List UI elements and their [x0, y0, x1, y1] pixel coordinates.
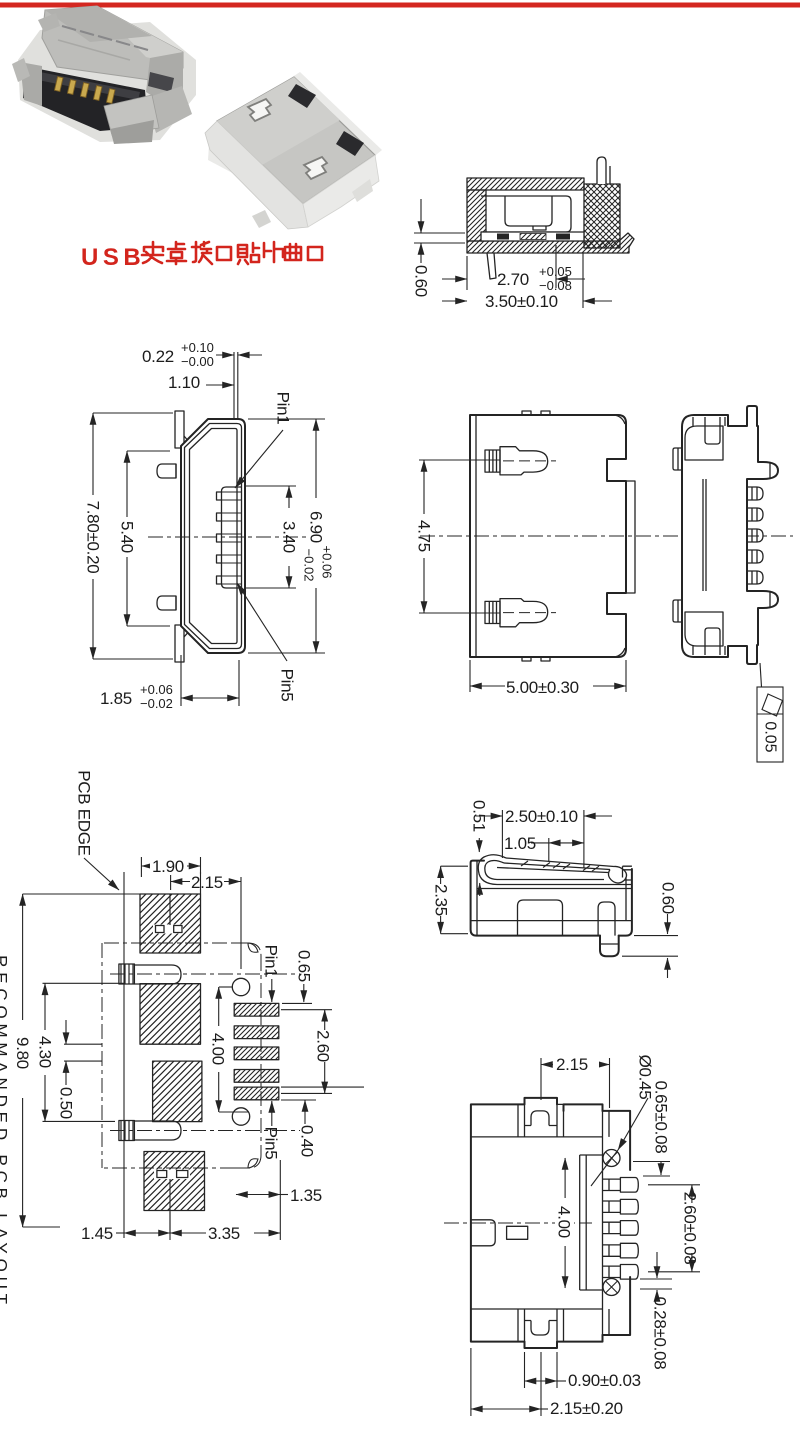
body outline [471, 861, 632, 957]
dim 2.70 +0.05/-0.08 (view A) [442, 245, 585, 293]
svg-text:Pin5: Pin5 [262, 1127, 281, 1160]
svg-text:2.60±0.08: 2.60±0.08 [681, 1192, 700, 1265]
dim 5.00±0.30 [470, 660, 626, 697]
svg-text:−0.00: −0.00 [181, 354, 214, 369]
hole circle bottom [232, 1108, 249, 1125]
svg-text:+0.05: +0.05 [539, 264, 572, 279]
svg-text:1.35: 1.35 [290, 1186, 322, 1205]
top clamp inner lines [471, 1136, 603, 1138]
view A: cross-section (top right) [412, 157, 635, 311]
PCB edge leader [84, 858, 119, 890]
dim 1.90 [141, 857, 200, 894]
view F: section with spring contact (middle right) [432, 800, 679, 978]
centerline (views C and D) [420, 535, 793, 537]
svg-text:PCB EDGE: PCB EDGE [75, 770, 94, 855]
rubber block crosshatched [584, 184, 620, 248]
arm lower line [497, 880, 632, 885]
svg-text:0.60: 0.60 [659, 882, 678, 914]
shell left wall hatched [467, 190, 486, 241]
svg-text:2.15: 2.15 [556, 1055, 588, 1074]
dim 4.00 (view G) [555, 1158, 575, 1288]
right head block lines [602, 1111, 604, 1335]
label φ0.45 leader [591, 1055, 655, 1186]
svg-text:2.60: 2.60 [314, 1030, 333, 1062]
glyph 贴 [238, 243, 259, 264]
glyph 接 [192, 242, 212, 264]
dim 2.15±0.20 (view G) [471, 1348, 623, 1418]
dim 0.90±0.03 (view G) [525, 1352, 641, 1390]
right wall step [623, 866, 632, 877]
flatness callout leader [760, 663, 762, 687]
tongue edge double lines [579, 1155, 581, 1290]
weld lug top [157, 464, 176, 478]
svg-text:6.90: 6.90 [307, 511, 326, 543]
shell inner wall [185, 424, 242, 649]
top edge small tabs [522, 411, 550, 415]
dim 3.50±0.10 (view A) [442, 252, 612, 311]
small foot lower left [487, 253, 496, 279]
latch pin top (in view C) [485, 447, 556, 475]
view C: top view (middle center) [415, 411, 794, 697]
dim 2.60±0.08 (view G) [648, 1185, 700, 1272]
dim 4.00 (pcb) [209, 987, 249, 1112]
head slot bottom [705, 628, 720, 655]
dim 0.50 [57, 1020, 103, 1119]
svg-text:0.50: 0.50 [57, 1087, 76, 1119]
svg-text:3.50±0.10: 3.50±0.10 [485, 292, 558, 311]
svg-text:RECOMMANDED PCB LAYOUT: RECOMMANDED PCB LAYOUT [0, 955, 11, 1309]
latch clip pad bottom [110, 1121, 300, 1141]
shell pin top right [597, 157, 606, 184]
dim 3.40 [245, 486, 299, 588]
label Pin5 (pcb) [262, 1101, 281, 1159]
seam lines above shell [233, 352, 235, 419]
body outline [682, 406, 778, 664]
dim 2.50±0.10 [476, 806, 612, 868]
tongue in section [505, 196, 552, 226]
svg-text:1.90: 1.90 [152, 857, 184, 876]
svg-text:2.15±0.20: 2.15±0.20 [550, 1399, 623, 1418]
svg-text:−0.08: −0.08 [539, 278, 572, 293]
dim 1.10 [168, 373, 234, 392]
solder pad 2 [140, 984, 201, 1044]
dim 0.65 (pcb) [282, 950, 314, 1003]
dim 5.40 [118, 451, 171, 626]
svg-text:0.22: 0.22 [142, 347, 174, 366]
waist inner lines [702, 479, 704, 591]
red caption: USB + CJK glyph strokes [81, 242, 322, 271]
left ear top [673, 448, 682, 470]
svg-text:4.00: 4.00 [209, 1033, 228, 1065]
bottom inner line [471, 920, 632, 922]
svg-text:−0.02: −0.02 [140, 696, 173, 711]
flatness symbol parallelogram [762, 694, 783, 716]
dim 6.90 +0.06/-0.02 [248, 419, 335, 653]
bottom flange hatched [467, 233, 634, 253]
glyph 片 [264, 242, 283, 262]
svg-text:Pin1: Pin1 [262, 945, 281, 978]
svg-text:2.70: 2.70 [497, 270, 529, 289]
svg-text:+0.10: +0.10 [181, 340, 214, 355]
dim 0.40 (pcb) [281, 1087, 364, 1157]
svg-text:7.80±0.20: 7.80±0.20 [84, 501, 103, 574]
dim 0.28±0.08 (view G) [640, 1252, 672, 1369]
main body outline [470, 415, 626, 657]
solder tab middle [518, 900, 563, 936]
view E: recommended PCB layout (bottom left) [0, 770, 364, 1309]
svg-text:4.75: 4.75 [415, 520, 434, 552]
cavity outline [481, 196, 571, 232]
glyph 曲 [285, 244, 301, 260]
tongue with 5 pins [222, 487, 242, 588]
inner left wall line [475, 415, 477, 657]
dim 1.45 [81, 1212, 170, 1243]
svg-text:4.00: 4.00 [555, 1206, 574, 1238]
arm contact blob right [608, 866, 626, 883]
svg-text:0.65: 0.65 [295, 950, 314, 982]
svg-text:0.05: 0.05 [762, 721, 779, 752]
photo: left micro-USB connector [12, 6, 196, 144]
dim 1.05 [504, 834, 584, 862]
5 pins (view G) [603, 1178, 639, 1280]
dim 1.85 +0.06/-0.02 [100, 655, 239, 711]
svg-text:+0.06: +0.06 [320, 546, 335, 579]
screw hole top [603, 1150, 620, 1167]
contact strip [481, 232, 584, 241]
latch pin inner lines [769, 462, 771, 479]
dim 0.65±0.08 (view G) [633, 1081, 671, 1176]
glyph 卓 [167, 242, 186, 264]
svg-text:+0.06: +0.06 [140, 682, 173, 697]
inner corner lines right [614, 415, 625, 424]
solder pad 3 [153, 1061, 202, 1122]
body outline [471, 1104, 603, 1341]
view B: front view (left middle) [84, 340, 335, 711]
small post right [598, 902, 615, 936]
dim 9.80 [13, 894, 140, 1227]
spring arm curl left [478, 855, 506, 885]
solder pad 1 (top) hatched [140, 894, 201, 953]
screw hole bottom [603, 1279, 620, 1296]
arm hatch ticks [521, 861, 599, 871]
dim 1.35 [236, 1186, 322, 1205]
dim 2.15 (pcb) [170, 872, 241, 925]
head inner block bottom [685, 612, 723, 646]
dim 4.30 [36, 983, 125, 1121]
footprint outline dash-dot [104, 943, 261, 1168]
cavity outline [190, 429, 238, 644]
right side panel [626, 481, 635, 593]
dim 0.51 [470, 800, 489, 896]
shell outer outline [181, 419, 245, 653]
dim 2.15 (top, view G) [541, 1054, 610, 1108]
weld lug bottom [157, 596, 176, 610]
svg-text:1.85: 1.85 [100, 689, 132, 708]
tongue nub [533, 226, 546, 230]
svg-text:2.15: 2.15 [191, 873, 223, 892]
svg-text:0.40: 0.40 [298, 1125, 317, 1157]
left ear bottom [673, 600, 682, 622]
red separator bar top [0, 3, 800, 8]
centerline (view G) [444, 1222, 592, 1224]
svg-text:2.35: 2.35 [432, 884, 451, 916]
svg-text:1.45: 1.45 [81, 1224, 113, 1243]
5 contact pins (view D) [747, 487, 763, 584]
flatness feature control frame [757, 687, 783, 762]
svg-text:5.40: 5.40 [118, 521, 137, 553]
bottom wing notch [525, 1321, 558, 1336]
corner curls [248, 943, 258, 952]
svg-text:0.90±0.03: 0.90±0.03 [568, 1371, 641, 1390]
spring arm top lines [497, 858, 632, 873]
shell top wall hatched [467, 178, 584, 190]
label Pin1 (pcb) [262, 945, 281, 1002]
svg-text:Pin5: Pin5 [278, 669, 297, 702]
latch pin bottom (in view C) [485, 599, 556, 627]
hole circle top [232, 978, 249, 995]
dim 2.60 (pcb) [281, 1010, 333, 1094]
bottom-left fin tab [175, 625, 184, 662]
label Pin5 (front view) [237, 583, 297, 701]
svg-text:3.35: 3.35 [208, 1224, 240, 1243]
svg-text:USB: USB [81, 244, 145, 271]
dim 0.60 (view F) [622, 882, 678, 978]
view D: side view (middle right) [673, 406, 783, 762]
svg-text:0.60: 0.60 [412, 265, 431, 297]
svg-text:0.65±0.08: 0.65±0.08 [652, 1081, 671, 1154]
photo: right micro-USB connector (top view) [205, 72, 382, 229]
dim 0.60 (view A) [412, 199, 466, 297]
top wing notch [525, 1111, 558, 1126]
svg-text:2.50±0.10: 2.50±0.10 [505, 807, 578, 826]
dim 0.22 +0.10/-0.00 [142, 340, 262, 369]
5 pin pads hatched [234, 1003, 279, 1099]
svg-text:3.40: 3.40 [280, 521, 299, 553]
dim 2.35 [432, 866, 469, 934]
dim 7.80±0.20 [84, 413, 174, 659]
svg-text:5.00±0.30: 5.00±0.30 [506, 678, 579, 697]
bottom clamp inner lines [471, 1308, 603, 1310]
svg-text:−0.02: −0.02 [302, 549, 317, 582]
glyph 口 [308, 247, 322, 260]
svg-text:9.80: 9.80 [13, 1037, 32, 1069]
PCB edge line [123, 872, 125, 1238]
svg-text:4.30: 4.30 [36, 1036, 55, 1068]
dim 3.35 [170, 1160, 280, 1243]
inner cavity lines [477, 888, 632, 890]
foot inner lines [600, 943, 619, 945]
view G: bottom view (bottom right) [444, 1054, 700, 1418]
glyph 口 [217, 247, 231, 260]
left notch cutout center [471, 1220, 495, 1246]
svg-text:1.10: 1.10 [168, 373, 200, 392]
svg-text:0.28±0.08: 0.28±0.08 [651, 1297, 670, 1370]
glyph 安 [142, 242, 163, 263]
label Pin1 (front view) [235, 392, 293, 488]
head slot top [705, 417, 720, 444]
svg-text:1.05: 1.05 [504, 834, 536, 853]
centerline front view [148, 536, 308, 538]
top-left fin tab [175, 411, 184, 448]
head inner block top [685, 426, 723, 460]
dim 4.75 [415, 460, 501, 613]
latch clip pad top [110, 964, 300, 984]
solder pad 4 (bottom) hatched [144, 1152, 205, 1234]
